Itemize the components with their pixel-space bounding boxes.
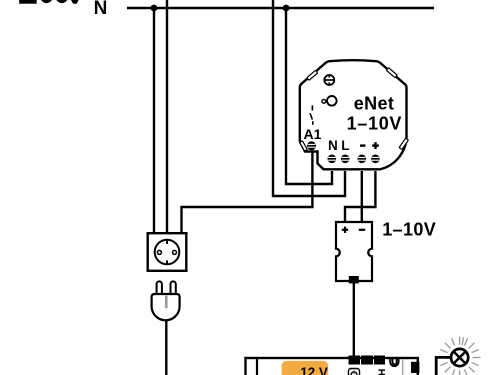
- driver terminal block 1: [349, 356, 361, 365]
- net label 230V (cut off at top, only glyph bottoms visible): [19, 0, 78, 4]
- programming button on actuator: [327, 96, 337, 106]
- svg-text:eNet: eNet: [354, 94, 395, 114]
- label minus terminal: [360, 144, 365, 146]
- converter 1-10V box: [336, 222, 372, 281]
- socket earth contact top: [166, 240, 168, 244]
- plug pin left: [157, 281, 162, 295]
- junction dot N to actuator: [283, 5, 290, 12]
- svg-text:12 V: 12 V: [300, 365, 328, 375]
- driver power icon: [349, 369, 360, 375]
- driver tool icon: [379, 370, 386, 375]
- converter bottom connector: [349, 276, 359, 283]
- lamp E1: [451, 349, 468, 366]
- wire PE from top to socket: [166, 0, 168, 234]
- driver 12V badge: [282, 361, 329, 375]
- wire N bus: [127, 7, 434, 9]
- converter minus label: [359, 229, 365, 231]
- terminal screw plus: [371, 155, 380, 164]
- svg-text:1–10V: 1–10V: [347, 114, 403, 134]
- claw mark bottom-left: [300, 141, 308, 151]
- op: eNet actuator U1 body outline: [300, 60, 407, 169]
- claw mark top-left: [307, 70, 318, 80]
- claw mark top-right: [386, 68, 397, 78]
- terminal screw L: [341, 155, 350, 164]
- claw mark bottom-right: [399, 138, 408, 149]
- driver right connector: [411, 362, 419, 373]
- wire N bus to actuator N terminal: [286, 8, 332, 184]
- driver divider line: [256, 358, 258, 375]
- wire minus terminal to converter: [361, 171, 363, 222]
- wire driver to lamp: [436, 357, 451, 375]
- terminal screw N: [328, 155, 337, 164]
- switch symbol dashes: [310, 105, 313, 125]
- driver clamp icon: [390, 358, 399, 366]
- socket outlet X1 box: [148, 233, 187, 271]
- socket earth contact bottom: [166, 260, 168, 264]
- svg-text:L: L: [341, 138, 349, 153]
- socket pin hole left: [157, 250, 161, 254]
- wire L from top to actuator L terminal: [273, 0, 345, 196]
- terminal screw A1: [307, 141, 316, 150]
- plug pin right: [171, 281, 176, 295]
- mounting screw on actuator: [324, 75, 335, 85]
- terminal screw minus: [358, 155, 367, 164]
- socket pin hole right: [173, 250, 177, 254]
- svg-text:A1: A1: [304, 126, 322, 142]
- svg-text:N: N: [328, 138, 338, 153]
- wire A1 output to socket: [182, 149, 313, 234]
- lamp cross: [454, 352, 466, 364]
- wire converter to driver: [353, 283, 355, 357]
- plug body: [152, 294, 180, 320]
- junction dot N to socket: [151, 5, 158, 12]
- driver terminal block 2: [361, 356, 373, 365]
- label plus terminal: [372, 142, 379, 149]
- LED dot on actuator: [322, 99, 326, 103]
- wire plus terminal to converter: [345, 171, 375, 222]
- plug cord: [165, 320, 167, 375]
- driver gray divider: [402, 359, 404, 375]
- lamp rays: [440, 337, 480, 375]
- plug cable entry mark: [165, 296, 168, 309]
- converter plus label: [342, 227, 348, 233]
- svg-text:N: N: [94, 0, 108, 19]
- socket outlet recess circle: [155, 240, 180, 265]
- driver box 12V: [246, 358, 418, 375]
- driver terminal block 3: [374, 356, 385, 365]
- wire N bus to socket: [153, 8, 155, 234]
- svg-text:1–10V: 1–10V: [382, 220, 436, 240]
